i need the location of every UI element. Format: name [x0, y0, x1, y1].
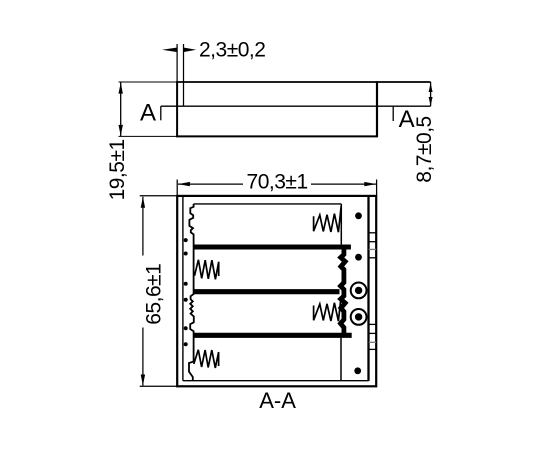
section marker A (right) [392, 106, 394, 121]
right edge of body [376, 81, 378, 137]
terminal ring 1 [351, 283, 367, 299]
arrow down 19,5 [119, 125, 123, 136]
right wall rungs group 1 [369, 232, 377, 234]
spring bay 2 (left) [195, 260, 219, 280]
bottom edge extension (left, for 19,5 dim) [119, 135, 178, 137]
separator bar 3 [194, 333, 352, 338]
top edge of body [176, 81, 430, 83]
extension line left [176, 180, 178, 197]
bay right wall (top bay) [340, 204, 342, 245]
arrow left [178, 182, 190, 186]
compartment bottom edge [183, 380, 369, 382]
svg-text:65,6±1: 65,6±1 [142, 264, 165, 325]
spring bay 3 (right) [314, 297, 341, 321]
arrow down 8,7 [429, 97, 433, 106]
arrow up 8,7 [429, 83, 433, 92]
arrow up 19,5 [119, 83, 123, 94]
arrow right [364, 182, 376, 186]
extension line top [140, 195, 178, 197]
section marker A (left) [160, 106, 162, 120]
dimension line segments [178, 183, 243, 185]
svg-text:2,3±0,2: 2,3±0,2 [199, 39, 265, 62]
arrow left (base on left extension) [162, 48, 177, 52]
svg-text:19,5±1: 19,5±1 [106, 139, 129, 200]
separator bar 1 [194, 244, 351, 249]
left rivet dots [184, 238, 188, 242]
cut line A-A through body [161, 105, 431, 107]
bay right wall (bottom bay) [340, 338, 342, 381]
svg-text:70,3±1: 70,3±1 [247, 171, 308, 194]
spring bay 1 (right) [314, 206, 342, 232]
terminal ring 2 [351, 309, 367, 325]
inner wall line at 2,3 offset [183, 44, 185, 106]
compartment top edge [194, 203, 342, 205]
svg-text:A: A [399, 106, 415, 133]
19,5 dimension line [120, 83, 122, 137]
left edge of body [176, 81, 178, 137]
extension line right [376, 180, 378, 197]
bottom edge of body [176, 135, 377, 137]
svg-text:8,7±0,5: 8,7±0,5 [413, 116, 436, 182]
right mounting dots [355, 212, 362, 219]
inner left wall [182, 197, 184, 381]
spring bay 4 (left) [194, 350, 219, 368]
inner right wall [367, 197, 369, 381]
arrow up [141, 197, 145, 208]
svg-text:A-A: A-A [259, 388, 296, 413]
arrow down [141, 375, 145, 386]
top edge extension (left, for 19,5 dim) [119, 81, 178, 83]
extension line bottom [140, 385, 178, 387]
svg-text:A: A [140, 99, 156, 126]
serrated left edge [189, 204, 194, 381]
dimension line segments [142, 197, 144, 256]
right tab edge with 8,7 dimension line [430, 82, 432, 106]
wavy contact wall (right, bays 2-3) [341, 249, 346, 335]
right wall rungs group 2 [369, 323, 377, 325]
arrow right (base on right extension) [184, 48, 196, 52]
outer case [177, 196, 376, 386]
left edge extension up (for 2,3 dim) [176, 44, 178, 82]
separator bar 2 [194, 289, 340, 294]
